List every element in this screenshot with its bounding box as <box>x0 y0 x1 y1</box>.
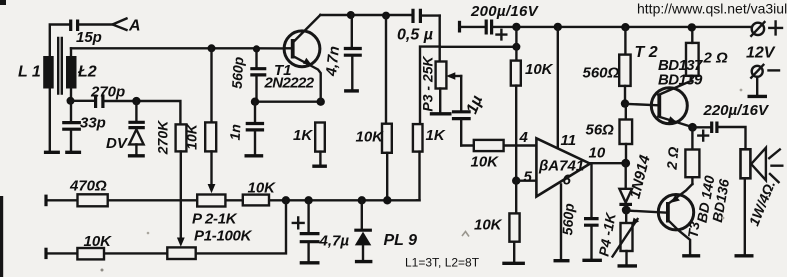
ground -12V <box>748 95 768 98</box>
svg-text:33p: 33p <box>80 115 106 132</box>
scan smudge <box>462 232 469 237</box>
scan smudge <box>147 232 150 235</box>
ground 4,7u <box>300 261 320 264</box>
wire T2 base <box>625 104 657 106</box>
svg-text:2 Ω: 2 Ω <box>703 50 729 67</box>
plus mark 4,7u <box>293 218 304 229</box>
svg-text:10: 10 <box>589 145 606 162</box>
svg-text:L1=3T, L2=8T: L1=3T, L2=8T <box>405 256 480 270</box>
speaker 1W/4R <box>735 148 783 256</box>
node lineA/PL9 <box>358 196 366 204</box>
ground T3 emitter <box>682 254 700 257</box>
svg-text:1K: 1K <box>293 127 313 144</box>
ground 1n <box>245 154 264 157</box>
wire L2 bottom <box>70 88 72 101</box>
svg-text:10K: 10K <box>184 123 200 150</box>
wiper P3 <box>450 75 461 77</box>
svg-text:560Ω: 560Ω <box>583 65 620 82</box>
svg-text:10K: 10K <box>356 129 385 146</box>
core lines <box>58 38 62 94</box>
node 47-line/10K <box>512 43 520 51</box>
node 1n/560p <box>251 98 259 106</box>
ground 4,7n <box>344 89 359 92</box>
svg-text:0,5 µ: 0,5 µ <box>397 27 433 44</box>
node rail/4,7n <box>347 11 355 19</box>
wire 270K to P1 wiper <box>180 151 182 238</box>
svg-text:L 1: L 1 <box>18 64 41 81</box>
svg-text:4,7n: 4,7n <box>323 45 343 78</box>
svg-text:12V: 12V <box>746 45 776 62</box>
line B bottom bus <box>46 252 167 254</box>
resistor 10K (line B) <box>77 248 104 259</box>
wire pin4 line <box>461 144 536 146</box>
node rail/10K-divider <box>512 23 520 31</box>
plus mark 200u <box>497 30 507 40</box>
wire P1 right riser <box>196 200 286 253</box>
scan smudge <box>722 217 725 220</box>
svg-text:1K: 1K <box>426 127 446 144</box>
terminal tick 200u input <box>458 21 461 33</box>
ground divider <box>502 262 525 265</box>
resistor 10K (divider top) <box>511 61 521 181</box>
ground P4 <box>618 264 638 267</box>
supply rail <box>493 26 752 28</box>
capacitor 220u/16V <box>693 122 746 150</box>
resistor 2R (T3 collector) <box>685 127 699 184</box>
capacitor 15p <box>71 20 113 32</box>
svg-text:PL 9: PL 9 <box>384 232 418 249</box>
plus mark 220u <box>698 131 708 141</box>
capacitor 270p <box>71 95 181 125</box>
node lineA/4,7u <box>304 196 312 204</box>
wire branch to supply 10K <box>440 46 517 48</box>
svg-text:15p: 15p <box>76 29 102 46</box>
node rail/560p <box>253 45 260 52</box>
svg-text:2 Ω: 2 Ω <box>663 146 681 171</box>
capacitor 1n <box>245 102 265 156</box>
node rail/10K <box>382 12 390 20</box>
wire pin6 <box>560 185 562 260</box>
capacitor 200u/16V <box>460 20 507 40</box>
capacitor 4,7n <box>344 15 362 91</box>
scan artifact left edge <box>0 196 3 277</box>
scan artifact top-left corner <box>0 0 6 5</box>
varicap DV <box>128 101 145 156</box>
node L2/270p/33p <box>67 97 75 105</box>
svg-text:1n: 1n <box>227 124 244 141</box>
svg-text:10K: 10K <box>471 154 500 171</box>
svg-text:220µ/16V: 220µ/16V <box>703 102 771 119</box>
capacitor 1u <box>452 76 471 146</box>
line A bottom bus <box>46 199 420 201</box>
wire pin5 <box>516 179 536 181</box>
svg-text:200µ/16V: 200µ/16V <box>470 3 540 20</box>
capacitor 0,5u <box>413 9 440 23</box>
resistor 560R <box>619 27 630 103</box>
node rail/pin11 <box>554 23 562 31</box>
node rail/560R <box>621 23 629 31</box>
node T2 base <box>621 99 629 107</box>
svg-text:P3 - 25K: P3 - 25K <box>420 55 436 111</box>
wire 15p to antenna <box>79 23 113 25</box>
transistor T3 BD140/BD136 <box>658 184 700 256</box>
resistor 10K (tune to P2) <box>205 48 216 193</box>
svg-text:4,7µ: 4,7µ <box>319 233 350 250</box>
svg-text:270p: 270p <box>90 84 125 101</box>
scan smudge <box>740 89 743 92</box>
node rail/2R <box>688 23 696 31</box>
capacitor 560p (output) <box>582 163 602 260</box>
resistor 1K (T1 emitter) <box>312 123 327 167</box>
base rail from L2 to T1 <box>71 47 284 50</box>
antenna A <box>113 19 127 31</box>
capacitor 560p <box>250 49 266 102</box>
svg-text:560p: 560p <box>559 202 577 235</box>
ground speaker <box>735 254 754 257</box>
node T2 emitter/2R/220u <box>688 123 697 132</box>
ground PL9 <box>355 260 373 263</box>
wire output pin10 <box>590 162 626 164</box>
node rail/10K <box>208 44 216 52</box>
wire 0,5u to P3 <box>439 16 441 60</box>
inductor L1 <box>43 25 69 153</box>
svg-text:470Ω: 470Ω <box>69 178 107 195</box>
resistor 10K (line A) <box>243 195 269 206</box>
svg-text:βA741: βA741 <box>538 158 584 175</box>
wire L1 bottom lead <box>49 88 51 151</box>
svg-text:10K: 10K <box>525 61 554 78</box>
capacitor 33p <box>62 101 81 153</box>
terminal -12V <box>748 65 780 97</box>
resistor 10K (divider bottom) <box>502 181 525 264</box>
svg-text:A: A <box>128 18 141 35</box>
ground P3 <box>430 112 452 115</box>
collector rail <box>320 14 411 16</box>
node diode/P4/T3 base <box>622 206 631 215</box>
svg-text:560p: 560p <box>229 56 247 89</box>
svg-text:BD139: BD139 <box>658 72 703 89</box>
node pin5 <box>512 177 520 185</box>
ground 560p <box>582 259 602 262</box>
capacitor 4,7u <box>293 200 320 262</box>
transistor T1 2N2222 <box>284 15 321 102</box>
wire rail to divider <box>515 27 517 61</box>
wire branch to 1K bottom <box>420 47 440 125</box>
wire pin11 <box>557 27 559 151</box>
wire L2 top to base rail <box>70 48 72 56</box>
node output/56R/diode <box>621 159 630 168</box>
resistor 270K <box>176 124 187 246</box>
transistor T2 BD137/BD139 <box>651 76 692 128</box>
svg-text:P1-100K: P1-100K <box>194 228 253 245</box>
node lineA/P1 <box>282 196 290 204</box>
potentiometer P3-25K <box>430 62 461 114</box>
zener PL9 <box>354 200 372 261</box>
potentiometer P4-1K <box>613 210 640 266</box>
svg-text:11: 11 <box>561 132 577 149</box>
node 270p/DV <box>132 97 140 105</box>
op-amp U1 BA741 <box>536 138 590 196</box>
resistor 1K (to osc line) <box>413 124 423 200</box>
node emitter/1K <box>317 98 325 106</box>
svg-text:DV: DV <box>106 135 129 152</box>
terminal +12V <box>751 21 782 36</box>
svg-text:T 2: T 2 <box>635 44 658 61</box>
svg-text:P 2-1K: P 2-1K <box>192 211 238 228</box>
terminal tick line B <box>44 248 47 259</box>
potentiometer P2-1K <box>197 195 225 207</box>
svg-text:10K: 10K <box>84 233 113 250</box>
ground DV <box>128 154 145 157</box>
scan smudge <box>101 269 104 272</box>
svg-text:10K: 10K <box>248 180 277 197</box>
terminal tick line A <box>44 195 47 207</box>
potentiometer P1-100K <box>167 200 286 259</box>
wire 10K to P2 wiper <box>210 151 212 185</box>
svg-text:http://www.qsl.net/va3iul: http://www.qsl.net/va3iul <box>637 1 787 17</box>
svg-text:5: 5 <box>524 169 533 186</box>
svg-text:10K: 10K <box>474 217 503 234</box>
svg-text:2N2222: 2N2222 <box>264 75 315 92</box>
ground 33p <box>65 151 81 154</box>
svg-text:Ł2: Ł2 <box>77 64 97 81</box>
wire L1 top to antenna cap <box>50 25 69 57</box>
resistor 2R (T2 collector) <box>686 28 699 76</box>
resistor 470R <box>78 194 108 206</box>
wire emitter line <box>255 100 321 102</box>
resistor 56R <box>620 104 633 164</box>
node lineA/10K <box>383 196 391 204</box>
svg-text:56Ω: 56Ω <box>586 122 615 139</box>
svg-text:4: 4 <box>519 129 529 146</box>
resistor 10K (pin4 series) <box>474 140 504 151</box>
resistor 10K (collector load) <box>382 16 392 201</box>
inductor L2 <box>66 48 77 101</box>
ground pin6 <box>554 259 570 262</box>
diode 1N914 <box>619 163 632 210</box>
wire T3 base <box>626 211 666 213</box>
ground 1K <box>312 164 327 167</box>
ground L1 <box>44 151 60 154</box>
svg-text:270K: 270K <box>155 120 171 155</box>
